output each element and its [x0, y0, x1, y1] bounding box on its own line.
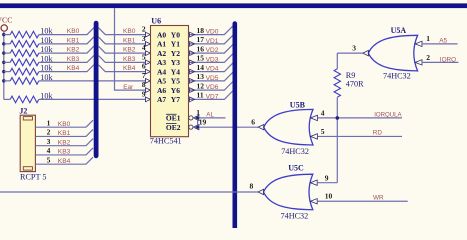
net labels KB0-KB4 (left of bus): [67, 28, 80, 72]
net labels KB0-KB4 (right of bus): [123, 28, 136, 72]
svg-text:KB2: KB2: [67, 47, 80, 54]
svg-text:RCPT 5: RCPT 5: [20, 172, 46, 181]
wire KB2: bus to U6 pin 4: [98, 46, 146, 53]
svg-text:VD1: VD1: [206, 38, 219, 45]
svg-text:A3: A3: [157, 58, 166, 67]
IC U6 74HC541 body: [151, 26, 189, 137]
svg-text:5: 5: [321, 127, 325, 136]
wire VD3: U6 pin 15 to right bus (with bus entry): [189, 54, 233, 62]
wire J2 pin 1 (KB0) to left bus: [35, 120, 93, 127]
svg-text:KB2: KB2: [123, 47, 136, 54]
svg-text:U5B: U5B: [290, 101, 306, 110]
svg-text:14: 14: [197, 63, 205, 72]
wire KB4: bus to U6 pin 6: [98, 65, 146, 72]
wire VD1: U6 pin 17 to right bus (with bus entry): [189, 35, 233, 43]
svg-text:KB0: KB0: [58, 121, 71, 128]
wire J2 pin 4 (KB3) to left bus: [35, 148, 93, 155]
svg-text:4: 4: [47, 146, 51, 155]
svg-text:A7: A7: [157, 95, 166, 104]
svg-text:Y7: Y7: [171, 95, 180, 104]
svg-text:KB4: KB4: [123, 65, 136, 72]
svg-text:4: 4: [321, 108, 325, 117]
svg-text:U5C: U5C: [288, 164, 304, 173]
svg-text:2: 2: [47, 128, 51, 137]
svg-text:VD6: VD6: [206, 84, 219, 91]
or-gate U5B 74HC32: [258, 109, 313, 145]
U5A pin 1 input arrow and wire A5: [415, 41, 422, 46]
junction dot R9 / IORQULA: [336, 116, 340, 120]
or-gate U5A 74HC32: [363, 35, 418, 71]
svg-text:17: 17: [197, 35, 205, 44]
resistor 10k #5 (row KB4): [10, 64, 53, 75]
svg-text:Y3: Y3: [171, 58, 180, 67]
svg-text:KB4: KB4: [67, 65, 80, 72]
U6 right pin output arrows: [190, 32, 195, 102]
svg-text:Y5: Y5: [171, 77, 180, 86]
VCC power port: [0, 16, 12, 32]
svg-text:KB0: KB0: [123, 28, 136, 35]
svg-text:18: 18: [197, 26, 205, 35]
svg-text:8: 8: [250, 181, 254, 190]
svg-text:13: 13: [197, 72, 205, 81]
svg-text:2: 2: [426, 53, 430, 62]
bus VD (right vertical bus): [233, 24, 238, 228]
svg-text:A1: A1: [157, 40, 166, 49]
svg-text:Y2: Y2: [171, 49, 180, 58]
svg-text:A2: A2: [157, 49, 166, 58]
svg-text:KB2: KB2: [58, 139, 71, 146]
svg-text:Y4: Y4: [171, 67, 180, 76]
svg-text:RD: RD: [373, 130, 383, 137]
svg-text:KB3: KB3: [123, 56, 136, 63]
svg-text:VD3: VD3: [206, 56, 219, 63]
wire VD7: U6 pin 11 to right bus (with bus entry): [189, 91, 233, 99]
svg-text:A0: A0: [157, 30, 166, 39]
wire VD5: U6 pin 13 to right bus (with bus entry): [189, 72, 233, 80]
wire J2 pin 3 (KB2) to left bus: [35, 139, 93, 146]
wire Ear: vertical drop from top bus bar to U6 pin 8: [115, 8, 146, 90]
resistor 10k #7 (row KB7): [10, 91, 53, 102]
wire U5A output down to R9: [336, 53, 338, 69]
svg-text:A4: A4: [157, 67, 166, 76]
svg-text:1: 1: [196, 108, 200, 117]
svg-text:74HC32: 74HC32: [281, 147, 309, 156]
svg-text:J2: J2: [19, 107, 27, 116]
wire VD4: U6 pin 14 to right bus (with bus entry): [189, 63, 233, 71]
svg-text:KB0: KB0: [67, 28, 80, 35]
svg-text:VD7: VD7: [206, 94, 219, 101]
U5A pin 2 input arrow and wire IORQ: [415, 60, 422, 65]
wire KB4: resistor to left bus (with bus entry): [4, 71, 10, 73]
svg-text:12: 12: [197, 81, 205, 90]
resistor 10k #3 (row KB2): [10, 45, 53, 56]
U5C output wire (pin 8) to left edge: [0, 191, 258, 193]
junction dots at OE tie: [196, 116, 199, 128]
wire R9 bottom through IORQULA junction down to U5C pin 9: [336, 97, 338, 183]
svg-text:1: 1: [47, 118, 51, 127]
svg-text:5: 5: [47, 155, 51, 164]
wire J2 pin 5 (KB4) to left bus: [35, 157, 93, 164]
power bus bar (top, full width): [0, 3, 467, 8]
svg-text:KB3: KB3: [67, 56, 80, 63]
svg-text:3: 3: [47, 137, 51, 146]
svg-text:KB1: KB1: [123, 37, 136, 44]
svg-text:6: 6: [251, 117, 255, 126]
svg-text:15: 15: [197, 54, 205, 63]
U5B pin 5 input arrow and wire RD: [311, 134, 318, 139]
svg-text:Y0: Y0: [171, 30, 180, 39]
connector J2 RCPT 5 body: [20, 115, 35, 171]
svg-text:10: 10: [325, 192, 333, 201]
svg-text:VD0: VD0: [206, 29, 219, 36]
wire VD0: U6 pin 18 to right bus (with bus entry): [189, 26, 233, 34]
svg-text:VD5: VD5: [206, 75, 219, 82]
svg-text:16: 16: [197, 44, 205, 53]
svg-text:U6: U6: [151, 16, 161, 25]
resistor R9 470R (vertical): [334, 69, 364, 97]
resistor 10k #6 (row KB5): [10, 73, 53, 84]
wire KB0: bus to U6 pin 2: [98, 28, 146, 35]
svg-text:74HC32: 74HC32: [383, 72, 411, 81]
svg-text:Y1: Y1: [171, 40, 180, 49]
svg-text:9: 9: [325, 174, 329, 183]
wire joining OE1 and OE2: [197, 118, 199, 127]
U6 right pin numbers 18-11: [197, 26, 205, 100]
J2 key mark (bottom): [23, 167, 32, 170]
or-gate U5C 74HC32: [258, 174, 313, 210]
wire KB1: bus to U6 pin 3: [98, 37, 146, 44]
svg-text:AL: AL: [206, 112, 214, 119]
U5B pin 4 input arrow and wire IORQULA: [311, 115, 318, 120]
svg-text:VD4: VD4: [206, 66, 219, 73]
wire KB0: resistor to left bus (with bus entry): [4, 34, 10, 36]
svg-text:470R: 470R: [346, 80, 364, 89]
wire row A5 (pin 7): resistor straight across bus to U6: [4, 80, 10, 82]
svg-text:11: 11: [197, 91, 204, 100]
svg-text:3: 3: [352, 43, 356, 52]
svg-text:A6: A6: [157, 86, 166, 95]
svg-text:Y6: Y6: [171, 86, 180, 95]
U6 pin names A0-A7 / Y0-Y7: [157, 30, 180, 104]
svg-text:KB4: KB4: [58, 158, 71, 165]
wire row A7 (pin 9): lower 10k resistor straight across bus to U6: [4, 98, 10, 100]
U6 OE1 OE2 pin names (active low, overbar): [166, 114, 181, 132]
wire KB3: bus to U6 pin 5: [98, 55, 146, 62]
wire VCC rail (left vertical): [3, 31, 5, 99]
J2 pin-1 key mark (top): [23, 117, 32, 120]
bus KB (left vertical bus): [94, 23, 99, 156]
svg-text:74HC541: 74HC541: [150, 137, 182, 146]
svg-text:19: 19: [199, 118, 207, 127]
svg-text:OE2: OE2: [166, 123, 181, 132]
svg-text:A5: A5: [439, 37, 447, 44]
junction dots on VCC rail: [2, 33, 5, 83]
svg-text:VCC: VCC: [0, 16, 12, 25]
resistor 10k #1 (row KB0): [10, 27, 53, 38]
svg-text:KB1: KB1: [58, 130, 71, 137]
U5A output wire (pin 3) to R9 top: [337, 52, 363, 54]
svg-text:A5: A5: [157, 77, 166, 86]
wire KB1: resistor to left bus (with bus entry): [4, 43, 10, 45]
U5C pin 10 input arrow and wire WR: [310, 199, 317, 204]
svg-text:KB3: KB3: [58, 149, 71, 156]
resistor 10k #4 (row KB3): [10, 54, 53, 65]
svg-text:IORQ: IORQ: [440, 56, 456, 63]
wire J2 pin 2 (KB1) to left bus: [35, 129, 93, 136]
svg-text:1: 1: [426, 34, 430, 43]
svg-text:WR: WR: [373, 195, 384, 202]
svg-text:OE1: OE1: [166, 114, 181, 123]
svg-text:U5A: U5A: [391, 26, 407, 35]
U6 left pin input arrows: [145, 32, 150, 102]
svg-text:74HC32: 74HC32: [281, 212, 309, 221]
svg-text:IORQULA: IORQULA: [374, 111, 402, 118]
wire VD6: U6 pin 12 to right bus (with bus entry): [189, 82, 233, 90]
svg-text:KB1: KB1: [67, 37, 80, 44]
net labels VD0-VD7: [206, 29, 219, 101]
U6 OE2 pin 19: bubble, arrow, wire to U5B output: [189, 125, 193, 129]
U6 left pin numbers 2-9: [142, 25, 146, 99]
wire KB2: resistor to left bus (with bus entry): [4, 52, 10, 54]
wire VD2: U6 pin 16 to right bus (with bus entry): [189, 45, 233, 53]
wire KB3: resistor to left bus (with bus entry): [4, 61, 10, 63]
resistor 10k #2 (row KB1): [10, 36, 53, 47]
U6 OE1 pin 1: bubble, arrow, wire AL: [189, 116, 193, 120]
U5C pin 9 input arrow and wire from R9: [310, 180, 317, 185]
svg-text:Ear: Ear: [123, 84, 134, 91]
svg-text:VD2: VD2: [206, 47, 219, 54]
